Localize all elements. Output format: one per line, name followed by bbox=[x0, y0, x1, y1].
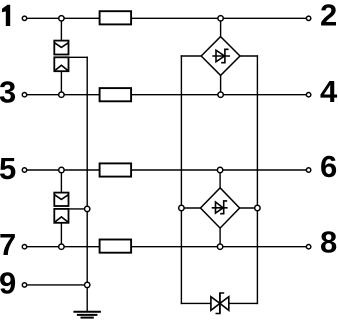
wire stub from V1/V2 midpoint to ground rail bbox=[69, 56, 88, 58]
wire node5 down to suppressor pair V3 bbox=[60, 170, 62, 193]
wire line5 terminal5 to terminal6 bbox=[27, 169, 305, 171]
node junction line1-V1 bbox=[59, 16, 64, 21]
suppressor diode V1 bbox=[54, 41, 68, 55]
wire suppressor pair V4 down to node7 bbox=[60, 223, 62, 247]
wire node on line5 down to diamond F2 top bbox=[219, 170, 221, 188]
terminal pin 8 bbox=[306, 245, 310, 249]
svg-text:2: 2 bbox=[320, 0, 337, 32]
resistor R2 bbox=[100, 88, 132, 101]
suppressor diode V4 bbox=[54, 209, 68, 223]
svg-text:9: 9 bbox=[0, 266, 16, 301]
wire right rail vertical bbox=[256, 56, 258, 303]
ground bbox=[73, 312, 101, 318]
suppressor diode V3 bbox=[54, 193, 68, 206]
terminal pin 4 bbox=[306, 93, 310, 97]
wire line9 terminal9 to ground rail bbox=[27, 284, 87, 286]
node junction line5-F2 bbox=[217, 167, 222, 172]
node junction line1-F1 bbox=[218, 16, 223, 21]
wire diamond F1 right stub to right rail bbox=[240, 55, 257, 57]
wire diamond F2 right stub to right rail bbox=[240, 207, 258, 209]
suppressor diode V2 bbox=[54, 57, 68, 71]
node junction line7-V4 bbox=[59, 244, 64, 249]
wire node on line1 down to diamond F1 top bbox=[220, 18, 222, 36]
terminal pin 3 bbox=[22, 93, 26, 97]
resistor R3 bbox=[100, 163, 132, 176]
terminal pin 9 bbox=[22, 283, 26, 287]
wire diamond F2 left stub to left rail bbox=[181, 207, 200, 209]
wire ground rail vertical bbox=[86, 57, 88, 311]
surge arrester diamond F2 bbox=[201, 188, 240, 228]
node junction line7-F2 bbox=[217, 244, 222, 249]
wire left rail vertical bbox=[180, 56, 182, 303]
node junction line3-F1 bbox=[218, 92, 223, 97]
svg-text:5: 5 bbox=[0, 151, 16, 186]
node junction line5-V3 bbox=[59, 167, 64, 172]
wire line1 terminal1 to terminal2 bbox=[27, 17, 305, 19]
wire node1 down to suppressor pair V1 bbox=[60, 18, 62, 40]
wire diamond F1 bottom down to node on line3 bbox=[220, 75, 222, 94]
wire diamond F1 left stub to left rail bbox=[181, 55, 201, 57]
svg-text:8: 8 bbox=[320, 225, 337, 260]
svg-text:7: 7 bbox=[0, 227, 16, 262]
node junction left rail-F2 bbox=[179, 205, 184, 210]
terminal pin 6 bbox=[306, 168, 310, 172]
bidirectional TVS diode V5 bbox=[211, 293, 229, 314]
node junction line3-V2 bbox=[59, 92, 64, 97]
terminal pin 2 bbox=[306, 16, 310, 20]
resistor R4 bbox=[100, 240, 132, 253]
wire diamond F2 bottom down to node on line7 bbox=[219, 228, 221, 247]
surge arrester diamond F1 bbox=[201, 37, 240, 76]
wire bottom link with TVS V5 bbox=[181, 302, 257, 304]
terminal pin 7 bbox=[22, 245, 26, 249]
wire suppressor pair V2 down to node3 bbox=[60, 71, 62, 95]
svg-text:6: 6 bbox=[320, 149, 337, 184]
wire stub from V3/V4 midpoint to ground rail bbox=[69, 208, 88, 210]
node junction ground rail-line9 bbox=[85, 282, 90, 287]
svg-text:4: 4 bbox=[320, 74, 338, 109]
svg-text:3: 3 bbox=[0, 75, 16, 110]
node label 1 bbox=[2, 5, 10, 26]
terminal pin 5 bbox=[22, 168, 26, 172]
node junction right rail-F2 bbox=[255, 205, 260, 210]
node junction ground rail-V3/V4 stub bbox=[85, 206, 90, 211]
wire line3 terminal3 to terminal4 bbox=[27, 94, 305, 96]
resistor R1 bbox=[100, 11, 132, 24]
terminal pin 1 bbox=[22, 16, 26, 20]
wire line7 terminal7 to terminal8 bbox=[27, 246, 305, 248]
